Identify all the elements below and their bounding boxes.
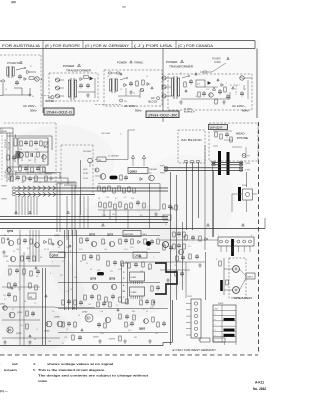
svg-text:220u: 220u — [100, 333, 104, 335]
connector CN12 column — [191, 299, 201, 338]
plug P901 (Australia) — [35, 77, 43, 82]
svg-text:Q707: Q707 — [52, 254, 59, 258]
resistor R603 — [185, 235, 187, 240]
wire (USA to jack) — [230, 85, 240, 95]
svg-text:R1: R1 — [4, 235, 6, 237]
wire (W.Germany) — [118, 88, 140, 98]
label Q779 — [108, 339, 115, 341]
svg-text:POWER TR: POWER TR — [7, 62, 20, 65]
svg-text:GND: GND — [83, 169, 88, 171]
svg-text:ted parts: ted parts — [4, 368, 17, 372]
resistor R775 — [98, 295, 100, 300]
svg-text:Q759: Q759 — [109, 278, 116, 281]
svg-text:notice: notice — [38, 379, 47, 383]
transistor Q750 label — [7, 230, 14, 233]
resistor row driver2 — [99, 202, 132, 209]
svg-text:Q770: Q770 — [93, 337, 99, 339]
IC P901 box (USA) — [196, 80, 205, 87]
section divider line B — [162, 49, 164, 123]
resistor R772 — [149, 264, 151, 269]
power wire pair lower ovals — [164, 167, 243, 172]
svg-text:220: 220 — [106, 197, 109, 199]
resistor R806 — [173, 244, 175, 249]
svg-text:S1: S1 — [30, 66, 32, 68]
tiny text amp row4 — [98, 307, 154, 327]
capacitor C909 (USA) — [240, 91, 244, 97]
tiny text tuner row1 — [19, 149, 45, 163]
resistor R602 — [175, 205, 177, 210]
resistor R788 — [140, 300, 142, 305]
fuse F901 (Australia) — [0, 80, 5, 82]
resistor R751 — [18, 239, 20, 244]
wire (amp h4) — [58, 308, 168, 310]
ground (Europe) — [86, 93, 90, 97]
Australia block dashed border — [0, 55, 41, 107]
svg-text:1: 1 — [218, 235, 219, 237]
svg-text:C12: C12 — [22, 275, 25, 277]
capacitor C910 (USA) — [202, 91, 206, 97]
svg-text:(E ) FOR EUROPE: (E ) FOR EUROPE — [45, 43, 80, 48]
capacitor C502 — [136, 200, 140, 206]
svg-text:D5: D5 — [44, 249, 46, 251]
Europe block dashed border — [49, 73, 98, 101]
tiny text (Australia) — [5, 63, 32, 91]
resistor R551 — [215, 132, 217, 137]
vertical ref text 1 — [5, 138, 7, 148]
resistor R792 — [104, 323, 106, 328]
svg-text:473: 473 — [27, 248, 30, 250]
svg-text:(1) —: (1) — — [0, 389, 9, 393]
resistor R776 — [105, 297, 107, 302]
wire (left col h308) — [55, 307, 95, 309]
svg-text:P.SW: P.SW — [245, 170, 250, 172]
resistor R804 — [173, 232, 175, 237]
resistor R773 — [151, 286, 153, 291]
diode D750 — [44, 240, 47, 243]
svg-text:5.: 5. — [33, 368, 36, 372]
headphone board id label — [209, 125, 228, 130]
label CN-OUT — [108, 155, 119, 158]
svg-text:Q734: Q734 — [16, 333, 22, 335]
svg-text:100: 100 — [74, 277, 77, 279]
resistor R762 — [119, 239, 121, 244]
ground (W.Germany) — [129, 90, 133, 94]
wire (center-right verticals) — [171, 170, 214, 345]
svg-text:and: and — [12, 362, 18, 366]
svg-text:⊛ ONLY FOR WEST GERMANY: ⊛ ONLY FOR WEST GERMANY — [172, 349, 216, 352]
wire staircase 2 — [15, 173, 60, 180]
svg-text:8: 8 — [26, 235, 27, 237]
fuse F903 (W.Germany) — [108, 72, 120, 74]
power transformer label (W.Germany) — [117, 61, 144, 65]
svg-text:CORD: CORD — [214, 62, 221, 64]
resistor R713 — [45, 176, 47, 181]
svg-text:C81: C81 — [155, 333, 158, 335]
svg-text:4.: 4. — [33, 362, 36, 366]
svg-text:L: L — [228, 261, 229, 263]
resistor R767 — [97, 255, 99, 260]
wire (headphone top) — [213, 131, 233, 140]
svg-text:Q760: Q760 — [82, 312, 88, 314]
resistor R905 (W.Germany) — [136, 81, 138, 86]
wire (amp long verticals) — [43, 268, 46, 345]
svg-text:SL-RMC: SL-RMC — [184, 109, 193, 111]
label Q770 — [93, 337, 99, 339]
capacitor C551 — [225, 132, 229, 138]
triangle marker (USA) — [185, 73, 234, 92]
resistor R784 — [62, 300, 64, 305]
wire (W.Germany mains lead) — [95, 104, 122, 106]
capacitor C762 — [111, 294, 115, 300]
svg-text:PW01: PW01 — [160, 166, 165, 168]
capacitor C759 — [134, 262, 138, 268]
svg-text:R701 4.7K: R701 4.7K — [5, 138, 7, 148]
power transformer label (Australia) — [7, 61, 22, 65]
svg-text:R3: R3 — [34, 339, 36, 341]
transistor Q750 — [8, 240, 13, 245]
capacitor C706 — [36, 166, 40, 172]
tiny text amp row2 — [62, 257, 155, 273]
svg-text:2NH-002-0: 2NH-002-0 — [46, 110, 72, 114]
diode D904 (W.Germany) — [147, 83, 150, 86]
supply rail wires — [0, 217, 168, 223]
variable capacitor VC701 — [44, 142, 48, 148]
svg-text:SW01: SW01 — [218, 303, 224, 305]
resistor R763 — [131, 239, 133, 244]
capacitor C607 — [180, 271, 184, 277]
svg-text:PW02: PW02 — [160, 173, 165, 175]
capacitor C756 — [150, 239, 154, 245]
tiny text amp row3 — [66, 291, 126, 307]
label Q734 — [16, 333, 22, 335]
capacitor C731 — [7, 292, 11, 298]
capacitor C805 — [177, 243, 181, 249]
resistor R906 (USA) — [184, 82, 186, 87]
wire (Europe secondary) — [78, 78, 95, 98]
svg-text:10: 10 — [32, 314, 34, 316]
transistor Q901 (USA) — [209, 93, 213, 97]
svg-text:473: 473 — [35, 149, 38, 151]
vertical wire cluster B — [65, 230, 77, 310]
resistor R785 — [74, 300, 76, 305]
tiny header text — [101, 132, 122, 135]
svg-text:D4: D4 — [146, 76, 148, 78]
transistor Q752 — [107, 234, 115, 247]
only for west germany note — [172, 349, 216, 352]
svg-text:C9: C9 — [70, 289, 72, 291]
svg-text:10u: 10u — [178, 261, 181, 263]
svg-text:POWER: POWER — [212, 59, 221, 61]
svg-text:R708 2.2K: R708 2.2K — [22, 151, 24, 161]
rail arrows — [15, 207, 245, 227]
page code No 2862 — [253, 387, 266, 391]
resistor R901 (Australia) — [29, 77, 34, 79]
resistor R509 — [143, 203, 145, 208]
capacitor C708 — [28, 176, 32, 182]
capacitor C606 — [195, 254, 199, 260]
svg-text:CN12: CN12 — [187, 296, 193, 298]
capacitor C757 — [89, 254, 93, 260]
ground (left col) — [3, 340, 32, 344]
svg-text:SPKR: SPKR — [242, 185, 248, 187]
wire (driver drops) — [104, 210, 128, 229]
svg-text:(2): (2) — [149, 173, 152, 175]
box VR701 — [28, 293, 36, 299]
ground (tuner) — [49, 176, 53, 180]
banner bar for power-supply variants — [0, 41, 255, 49]
svg-text:SW: SW — [215, 308, 218, 310]
resistor R765 — [157, 239, 159, 244]
svg-text:The design and contents are su: The design and contents are subject to c… — [38, 373, 148, 377]
ground post circle — [88, 158, 93, 167]
power switch S601 box — [242, 185, 253, 200]
svg-text:POWER: POWER — [117, 61, 127, 65]
svg-text:No. 2862: No. 2862 — [253, 387, 266, 391]
resistor R793 — [125, 322, 127, 327]
ICP protector blob — [97, 270, 104, 275]
page dashed border right — [258, 122, 260, 353]
resistor R552 — [220, 134, 222, 139]
AC BLOCK label (Europe) — [46, 96, 55, 104]
inductor L501 black blob — [110, 176, 118, 180]
svg-text:AC 120V~,: AC 120V~, — [232, 104, 246, 108]
resistor R731 — [29, 283, 31, 288]
svg-text:R710 33K: R710 33K — [43, 153, 45, 162]
capacitor C767 — [102, 301, 106, 307]
transistor Q759 — [109, 278, 117, 290]
connector CN701 — [97, 157, 106, 162]
capacitor C911 (USA) — [226, 94, 230, 100]
resistor R781 — [152, 317, 154, 322]
USA block dashed border — [168, 74, 252, 110]
node N (Australia) — [29, 94, 34, 98]
relay coil bar — [238, 187, 241, 201]
page code A-K11 — [255, 381, 264, 385]
transformer T901 (Australia) — [7, 66, 14, 78]
capacitor C604 — [191, 235, 195, 241]
ground symbols (USA) — [179, 100, 226, 104]
ground (right col) — [166, 263, 202, 282]
capacitor C754 — [85, 237, 89, 243]
capacitor C770 — [97, 322, 101, 328]
capacitor C752 — [15, 268, 19, 274]
SPEAKER label — [233, 296, 252, 300]
svg-text:AC: AC — [151, 96, 155, 100]
scatter labels speckle — [4, 235, 158, 345]
svg-text:TRANSFORMER: TRANSFORMER — [66, 68, 92, 72]
power wire pair upper — [212, 163, 243, 165]
tuner left dashed edge — [1, 128, 3, 180]
tiny text (W.Germany) — [107, 75, 148, 95]
svg-text:2.2: 2.2 — [4, 299, 6, 301]
svg-text:47: 47 — [36, 329, 38, 331]
wire (pair drops) — [205, 145, 247, 250]
power cord label (USA) — [212, 57, 229, 64]
capacitor C703 — [31, 153, 33, 157]
svg-text:GROUND: GROUND — [83, 151, 92, 153]
svg-text:C6: C6 — [133, 93, 135, 95]
resistor R730 — [8, 283, 10, 288]
capacitor C772 — [162, 321, 166, 327]
resistor R782 — [72, 335, 74, 340]
svg-text:CN: CN — [98, 160, 102, 162]
muting transistor black dot — [146, 241, 151, 246]
wire (tuner lower) — [7, 165, 52, 174]
svg-text:CN13: CN13 — [247, 277, 253, 279]
resistor R761 — [102, 239, 104, 244]
fuse F904 (USA) — [200, 63, 226, 73]
diode D906 (USA) — [208, 81, 211, 84]
tiny text tuner row2 — [14, 171, 42, 184]
transistor Q711 — [42, 155, 46, 159]
resistor R907 (USA) — [224, 87, 226, 92]
capacitor C769 — [67, 321, 71, 327]
board id label 2NH-002-0 — [44, 108, 74, 115]
wire (AC block feeds) — [187, 163, 199, 231]
wire (speaker leads) — [224, 258, 246, 295]
svg-text:Q758: Q758 — [90, 278, 97, 281]
svg-text:R82: R82 — [134, 337, 137, 339]
resistor R790 — [62, 322, 64, 327]
vertical ref text 3 — [15, 153, 17, 162]
capacitor C901 (Australia) — [18, 74, 22, 80]
capacitor C753 — [36, 269, 40, 275]
svg-text:Q752: Q752 — [107, 234, 114, 237]
wire (amp h2) — [58, 252, 160, 254]
svg-text:2.2: 2.2 — [34, 303, 36, 305]
voltage label AC 220V 50Hz (W.Germany) — [124, 104, 142, 113]
antenna coil L701 — [14, 134, 17, 146]
svg-text:R70: R70 — [8, 275, 11, 277]
transistor Q801 ringed — [163, 242, 169, 248]
footnote page marker — [0, 389, 9, 393]
svg-text:VR: VR — [29, 297, 32, 299]
resistor row driver1 — [98, 186, 135, 193]
scatter triangles — [7, 238, 155, 337]
AC plug symbol (Europe) — [51, 96, 54, 99]
capacitor C705 — [24, 166, 28, 172]
svg-text:473: 473 — [128, 330, 131, 332]
resistor R704 — [26, 152, 28, 157]
resistor R553 — [230, 137, 232, 142]
svg-text:473: 473 — [147, 249, 150, 251]
svg-text:BLOCK: BLOCK — [149, 100, 158, 104]
svg-text:0.22: 0.22 — [66, 291, 69, 293]
capacitor C804 — [177, 231, 181, 237]
transistor Q712 — [7, 168, 11, 172]
diode D601 — [205, 237, 208, 240]
footnote item 5 — [33, 368, 105, 372]
transistor Q705 — [57, 321, 63, 327]
svg-text:(C ) FOR CANADA: (C ) FOR CANADA — [178, 43, 213, 48]
capacitor C768 — [145, 299, 149, 305]
svg-text:33: 33 — [36, 276, 38, 278]
wire (tuner top) — [7, 136, 52, 150]
capacitor C755 — [124, 238, 128, 244]
capacitor C906 (W.Germany) — [120, 99, 128, 103]
wire (amp h5) — [58, 332, 168, 334]
diode D905 (W.Germany) — [124, 83, 127, 86]
svg-text:This is the standard circuit d: This is the standard circuit diagram. — [38, 368, 105, 372]
resistor R807 — [183, 244, 185, 249]
svg-text:SLPM: SLPM — [83, 178, 88, 180]
section divider line C — [256, 49, 258, 119]
wire (amp h1) — [8, 265, 60, 267]
diode D907 (USA) — [212, 87, 215, 90]
svg-text:C3: C3 — [13, 251, 15, 253]
svg-text:~Q779: ~Q779 — [108, 339, 115, 341]
ground post box — [81, 160, 96, 215]
wire (tuner vertical bus) — [7, 133, 13, 182]
table row labels — [215, 308, 218, 342]
twist label lower — [1, 199, 8, 201]
wire (tp feeds) — [133, 159, 144, 167]
resistor R766 — [83, 255, 85, 260]
transformer T904 (USA) — [171, 76, 179, 99]
transistor Q703 — [7, 327, 13, 333]
resistor R787 — [109, 302, 111, 307]
wire (horizontal link2) — [160, 261, 205, 263]
svg-text:(G ) FOR W. GERMANY: (G ) FOR W. GERMANY — [85, 43, 129, 48]
diode D901 (Australia) — [27, 70, 36, 73]
svg-text:TRANS.: TRANS. — [134, 61, 144, 65]
label box Q805 — [133, 252, 147, 258]
resistor R760 — [80, 238, 82, 243]
svg-text:C708 22: C708 22 — [35, 156, 37, 163]
capacitor C765 — [67, 299, 71, 305]
capacitor C501 — [124, 175, 128, 181]
resistor R755 — [33, 256, 35, 261]
wire staircase 3 — [25, 178, 68, 184]
switch S903 (W.Germany) — [120, 77, 128, 80]
resistor R511 speaker — [226, 280, 228, 285]
wire (Australia mains) — [3, 83, 30, 95]
capacitor C750 — [23, 238, 27, 244]
resistor R764 — [144, 239, 146, 244]
svg-text:R80: R80 — [132, 311, 135, 313]
resistor R705 — [37, 152, 39, 157]
tiny text amp row1 — [16, 247, 150, 251]
wire (Australia to board) — [0, 88, 22, 96]
board id label 2NH-002-JR — [146, 111, 179, 118]
inductor L601 black mark — [220, 280, 223, 291]
svg-text:220: 220 — [110, 271, 113, 273]
vertical ref text 6 — [5, 170, 7, 178]
footnote item 5 line2 — [38, 373, 148, 377]
capacitor C771 — [130, 321, 134, 327]
speaker connector CN13 — [246, 273, 255, 279]
vertical ref text 4 — [18, 155, 20, 163]
capacitor C732 — [31, 311, 35, 317]
resistor R778 — [126, 299, 128, 304]
resistor R783 — [119, 336, 121, 341]
svg-text:TWIST: TWIST — [1, 199, 8, 201]
transformer T903 (W.Germany) — [110, 78, 118, 93]
svg-text:4.7: 4.7 — [116, 305, 118, 307]
wire (connector feed) — [95, 130, 135, 160]
svg-text:AC 220V~,: AC 220V~, — [124, 104, 138, 108]
vertical wire cluster A — [30, 230, 39, 262]
svg-text:c: c — [215, 324, 216, 326]
resistor R735 — [26, 324, 28, 329]
resistor R732 — [35, 285, 37, 290]
IC801 DIP box — [130, 272, 145, 284]
resistor R709 — [43, 167, 45, 172]
transistor Q760 big — [82, 312, 93, 323]
svg-text:1W: 1W — [6, 261, 9, 263]
resistor R779 — [119, 314, 121, 319]
svg-text:8DNF03-H: 8DNF03-H — [184, 112, 195, 114]
